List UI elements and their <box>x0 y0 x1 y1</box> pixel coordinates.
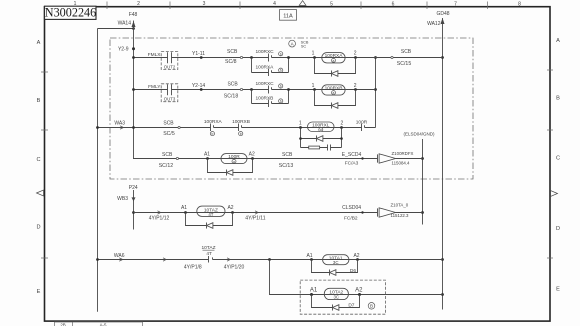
relay coil 100R <box>221 154 247 164</box>
node parallel left row1 <box>250 56 253 59</box>
svg-text:A2: A2 <box>249 152 255 158</box>
node row6 on left bus <box>96 258 99 261</box>
node parallel right row1 <box>287 56 290 59</box>
svg-text:A: A <box>37 40 41 46</box>
svg-text:4Y/P1/8: 4Y/P1/8 <box>184 264 202 270</box>
function box OUT2 <box>161 52 178 70</box>
svg-text:A: A <box>291 41 294 46</box>
svg-text:b: b <box>280 52 282 56</box>
wire right collector vertical <box>375 58 377 128</box>
node Y2-9 terminal <box>132 47 135 50</box>
svg-text:E: E <box>37 289 41 295</box>
node row5 tee <box>132 211 135 214</box>
right border arrow marker <box>551 191 558 197</box>
node diode branch right <box>340 137 343 140</box>
svg-text:(ELSD04/GND): (ELSD04/GND) <box>403 132 435 137</box>
svg-text:SCB: SCB <box>401 49 412 55</box>
contact FMLX <box>168 52 172 63</box>
svg-text:E: E <box>556 287 560 293</box>
wire top feeder horizontal <box>98 28 134 30</box>
connection point row1 <box>240 56 242 58</box>
svg-text:100RXC: 100RXC <box>256 49 275 55</box>
diode D row1 <box>331 71 333 77</box>
svg-text:100RXB: 100RXB <box>256 95 274 101</box>
svg-text:D: D <box>556 226 560 232</box>
svg-text:SC/5: SC/5 <box>163 131 175 137</box>
node gnd row4 <box>421 157 424 160</box>
svg-text:SC/18: SC/18 <box>224 93 239 99</box>
svg-text:F48: F48 <box>129 12 138 18</box>
relay coil 100RXB <box>322 85 345 95</box>
wire ELSD04/GND stub bus <box>422 139 424 225</box>
svg-text:SCB: SCB <box>282 152 293 158</box>
node bus row7 <box>441 293 444 296</box>
wire diode branch row2 <box>315 90 356 106</box>
wire diode branch row1 <box>315 58 356 74</box>
svg-text:4T: 4T <box>206 251 212 257</box>
svg-text:FMLY: FMLY <box>148 84 161 90</box>
svg-text:b: b <box>240 132 242 136</box>
svg-text:4Y/P1/11: 4Y/P1/11 <box>245 216 265 222</box>
wire arrow row5 right <box>255 211 258 214</box>
node row1 tee <box>132 56 135 59</box>
diode D row3 <box>316 136 318 142</box>
svg-text:FC/A3: FC/A3 <box>345 161 359 167</box>
svg-text:1: 1 <box>299 120 302 126</box>
svg-text:SC/8: SC/8 <box>225 59 237 65</box>
node WA14 junction <box>132 27 135 30</box>
svg-text:2: 2 <box>137 1 140 7</box>
relay coil 100RXL <box>308 122 335 132</box>
svg-text:3C: 3C <box>333 260 339 265</box>
svg-text:a: a <box>333 91 335 95</box>
wire row3 segments <box>98 127 376 129</box>
wire row1 segments <box>133 57 443 59</box>
wire diode branch row5 <box>186 213 233 226</box>
svg-text:SCB: SCB <box>163 121 174 127</box>
function box OUT3 <box>161 84 178 102</box>
svg-text:100RXA: 100RXA <box>204 119 223 125</box>
svg-text:100RXC: 100RXC <box>256 81 275 87</box>
svg-text:C: C <box>556 156 560 162</box>
node bus row6 <box>441 258 444 261</box>
svg-text:2: 2 <box>354 83 357 89</box>
node row4 output <box>361 157 363 159</box>
svg-text:A2: A2 <box>355 288 363 294</box>
svg-text:3C: 3C <box>333 295 339 300</box>
contact FMLY <box>168 84 172 95</box>
relay coil 10TA1 <box>323 255 349 265</box>
svg-text:A: A <box>556 38 560 44</box>
svg-text:11A: 11A <box>283 13 293 19</box>
diode D row2 <box>331 103 333 109</box>
title box <box>45 6 97 19</box>
svg-text:A-5: A-5 <box>100 323 107 326</box>
svg-text:3: 3 <box>203 1 206 7</box>
svg-text:1: 1 <box>312 83 315 89</box>
dashed option box row7 <box>300 280 385 314</box>
node diode branch left <box>299 137 302 140</box>
svg-text:115122.3: 115122.3 <box>391 213 410 218</box>
svg-text:SC/12: SC/12 <box>159 163 174 169</box>
svg-text:B: B <box>556 96 560 102</box>
svg-text:WA3: WA3 <box>114 120 125 126</box>
svg-text:b: b <box>280 69 282 73</box>
wire main vertical bus <box>133 21 135 159</box>
svg-text:SC/13: SC/13 <box>279 163 294 169</box>
relay coil 10TA2 <box>324 288 348 299</box>
wire arrow WA12 <box>441 18 445 24</box>
svg-text:4Y/P1/20: 4Y/P1/20 <box>224 264 245 270</box>
wire arrow WA14 <box>132 21 136 27</box>
svg-text:A1: A1 <box>306 253 312 259</box>
node row2 tee <box>132 88 135 91</box>
section marker A <box>289 40 296 47</box>
svg-text:Z10TA_0: Z10TA_0 <box>391 202 409 207</box>
svg-text:C: C <box>36 157 40 163</box>
svg-text:D7: D7 <box>348 303 354 309</box>
connection point row4 <box>176 157 178 159</box>
sheet reference box 11A <box>280 10 297 21</box>
svg-text:1: 1 <box>74 1 77 7</box>
svg-text:Y1-11: Y1-11 <box>192 51 205 57</box>
svg-text:6: 6 <box>392 2 395 8</box>
svg-text:4Y/P1/12: 4Y/P1/12 <box>149 216 170 222</box>
svg-text:WA12: WA12 <box>427 21 441 27</box>
wire right main bus <box>442 18 444 310</box>
svg-text:FMLX: FMLX <box>148 52 162 58</box>
svg-text:a: a <box>233 160 235 164</box>
wire diode branch row3 <box>301 128 342 148</box>
svg-text:4T: 4T <box>208 212 213 217</box>
wire arrow row5 left <box>158 211 161 214</box>
wire arrow row6 mid <box>227 258 230 261</box>
buffer gate Z100RDFX <box>377 154 379 162</box>
svg-text:2: 2 <box>354 51 357 57</box>
svg-text:115084.4: 115084.4 <box>392 161 411 166</box>
wire arrow row6 left <box>163 258 166 261</box>
column ticks top <box>107 2 488 10</box>
svg-text:SCB: SCB <box>227 81 238 87</box>
relay coil 10TAZ <box>197 206 225 216</box>
svg-text:A2: A2 <box>353 253 359 259</box>
svg-text:A1: A1 <box>181 205 187 211</box>
relay coil 100RXA <box>322 53 345 63</box>
row ticks left <box>41 72 48 258</box>
node bus row1 <box>441 56 444 59</box>
wire row6 segments <box>98 257 443 259</box>
svg-text:OUT3: OUT3 <box>164 97 176 102</box>
buffer gate Z10TA_0 <box>377 208 379 216</box>
wire arrow WA3 <box>120 126 124 129</box>
svg-text:a: a <box>320 128 322 132</box>
svg-text:E_SCD4: E_SCD4 <box>342 152 362 158</box>
svg-text:WA14: WA14 <box>118 21 132 27</box>
wire row7 drop and run <box>270 260 443 295</box>
svg-text:8: 8 <box>518 2 521 8</box>
svg-text:SC/15: SC/15 <box>397 61 412 67</box>
svg-text:CLSD04: CLSD04 <box>342 205 361 211</box>
svg-text:A1: A1 <box>204 152 210 158</box>
wire left vertical bus <box>97 29 99 312</box>
svg-text:100RXB: 100RXB <box>232 119 250 125</box>
node gnd row5 <box>421 211 424 214</box>
connection point row2 <box>240 88 242 90</box>
svg-text:5: 5 <box>330 2 333 8</box>
node collector row1 <box>374 56 377 59</box>
connection point row1 right <box>391 56 393 58</box>
node row3 on left bus <box>96 126 99 129</box>
bottom title block table <box>55 322 143 326</box>
node row5 output <box>361 211 363 213</box>
row ticks right <box>547 70 553 258</box>
wire arrow WA6 <box>119 258 123 261</box>
svg-text:Y2-9: Y2-9 <box>118 47 129 53</box>
connection point row3 <box>178 126 180 128</box>
node row3 main bus <box>132 126 135 129</box>
svg-text:D: D <box>36 225 40 231</box>
dash-dot enclosure boundary <box>110 38 473 179</box>
svg-text:WB3: WB3 <box>117 196 128 202</box>
wire row5 <box>134 212 423 214</box>
svg-text:4: 4 <box>273 1 276 7</box>
svg-text:7: 7 <box>454 2 457 8</box>
diode D row4 <box>226 170 228 176</box>
svg-text:2B: 2B <box>60 323 65 326</box>
svg-text:A2: A2 <box>227 205 233 211</box>
svg-text:2: 2 <box>341 120 344 126</box>
svg-text:FC/B2: FC/B2 <box>344 215 358 221</box>
section marker B <box>368 303 375 310</box>
svg-text:1: 1 <box>312 51 315 57</box>
wire parallel branch row1 <box>252 58 289 73</box>
svg-text:P24: P24 <box>129 185 138 191</box>
svg-text:B: B <box>37 98 41 104</box>
svg-text:b: b <box>280 100 282 104</box>
diode D7 <box>332 305 334 311</box>
wire diode branch row7 <box>312 295 360 308</box>
svg-text:a: a <box>333 59 335 63</box>
svg-text:Y2-14: Y2-14 <box>192 83 206 89</box>
resistor R row3 <box>309 146 320 149</box>
svg-text:b: b <box>211 132 213 136</box>
svg-text:N3002246: N3002246 <box>45 6 96 20</box>
svg-text:OUT2: OUT2 <box>164 64 176 69</box>
node collector row2 <box>374 88 377 91</box>
wire arrow WB3 <box>132 197 136 201</box>
left border arrow marker <box>37 190 44 196</box>
svg-text:b: b <box>280 85 282 89</box>
svg-text:Z100RDFX: Z100RDFX <box>392 151 414 156</box>
wire diode branch row6 <box>312 260 358 273</box>
node parallel right row2 <box>287 88 290 91</box>
wire P24 stub <box>133 190 135 230</box>
diode D row5 <box>206 223 208 229</box>
svg-text:GD48: GD48 <box>436 11 449 17</box>
svg-text:D6: D6 <box>350 268 356 274</box>
revision triangle marker <box>299 1 306 6</box>
svg-text:SC: SC <box>301 45 307 49</box>
svg-text:SCB: SCB <box>227 49 238 55</box>
node row6 branch <box>268 258 271 261</box>
wire parallel branch row2 <box>252 90 289 104</box>
svg-text:100RXA: 100RXA <box>256 65 275 71</box>
wire row4 <box>133 158 423 160</box>
svg-text:SCB: SCB <box>162 152 173 158</box>
wire diode branch row4 <box>208 159 253 173</box>
node parallel left row2 <box>250 88 253 91</box>
capacitor C row3 <box>328 145 331 151</box>
svg-text:A1: A1 <box>310 288 318 294</box>
wire row2 segments <box>133 89 376 91</box>
wire RC branch row3 <box>301 147 342 149</box>
diode D6 <box>329 270 331 276</box>
svg-text:B: B <box>370 304 373 309</box>
